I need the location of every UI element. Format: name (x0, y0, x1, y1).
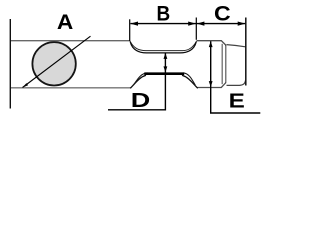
B C dimension line (130, 23, 245, 25)
leader diagonal A (23, 36, 91, 87)
block bottom edge (10, 87, 131, 89)
D up arrow (164, 53, 168, 59)
svg-text:E: E (229, 89, 245, 112)
E down arrow (209, 81, 213, 87)
B C shared extension line (195, 18, 197, 40)
svg-text:D: D (131, 89, 151, 112)
D dimension riser (108, 53, 165, 110)
B left arrow (130, 22, 138, 26)
svg-text:A: A (57, 11, 73, 34)
cap top edge (227, 45, 246, 47)
block top edge (10, 40, 129, 42)
boss top edge (197, 41, 226, 88)
neck bottom outer contour (130, 75, 198, 88)
leader arrowhead (23, 83, 29, 87)
boss face outer line (225, 46, 227, 82)
left extension line (9, 19, 11, 109)
neck top inner contour (130, 42, 196, 53)
B right arrow (188, 22, 196, 26)
B left extension line (129, 19, 131, 41)
neck top outer contour (130, 41, 197, 51)
hole circle (32, 42, 75, 85)
svg-text:C: C (214, 2, 231, 25)
E up arrow (209, 41, 213, 47)
D down arrow (164, 66, 168, 72)
svg-text:B: B (157, 3, 171, 26)
C left arrow (197, 22, 205, 26)
neck bottom inner contour (133, 73, 195, 85)
E dimension riser (211, 41, 261, 113)
boss face inner line (221, 44, 223, 84)
cap bottom edge (227, 81, 246, 86)
C right arrow (238, 22, 246, 26)
neck web bar (144, 72, 184, 75)
right extension line cap face (245, 18, 247, 86)
